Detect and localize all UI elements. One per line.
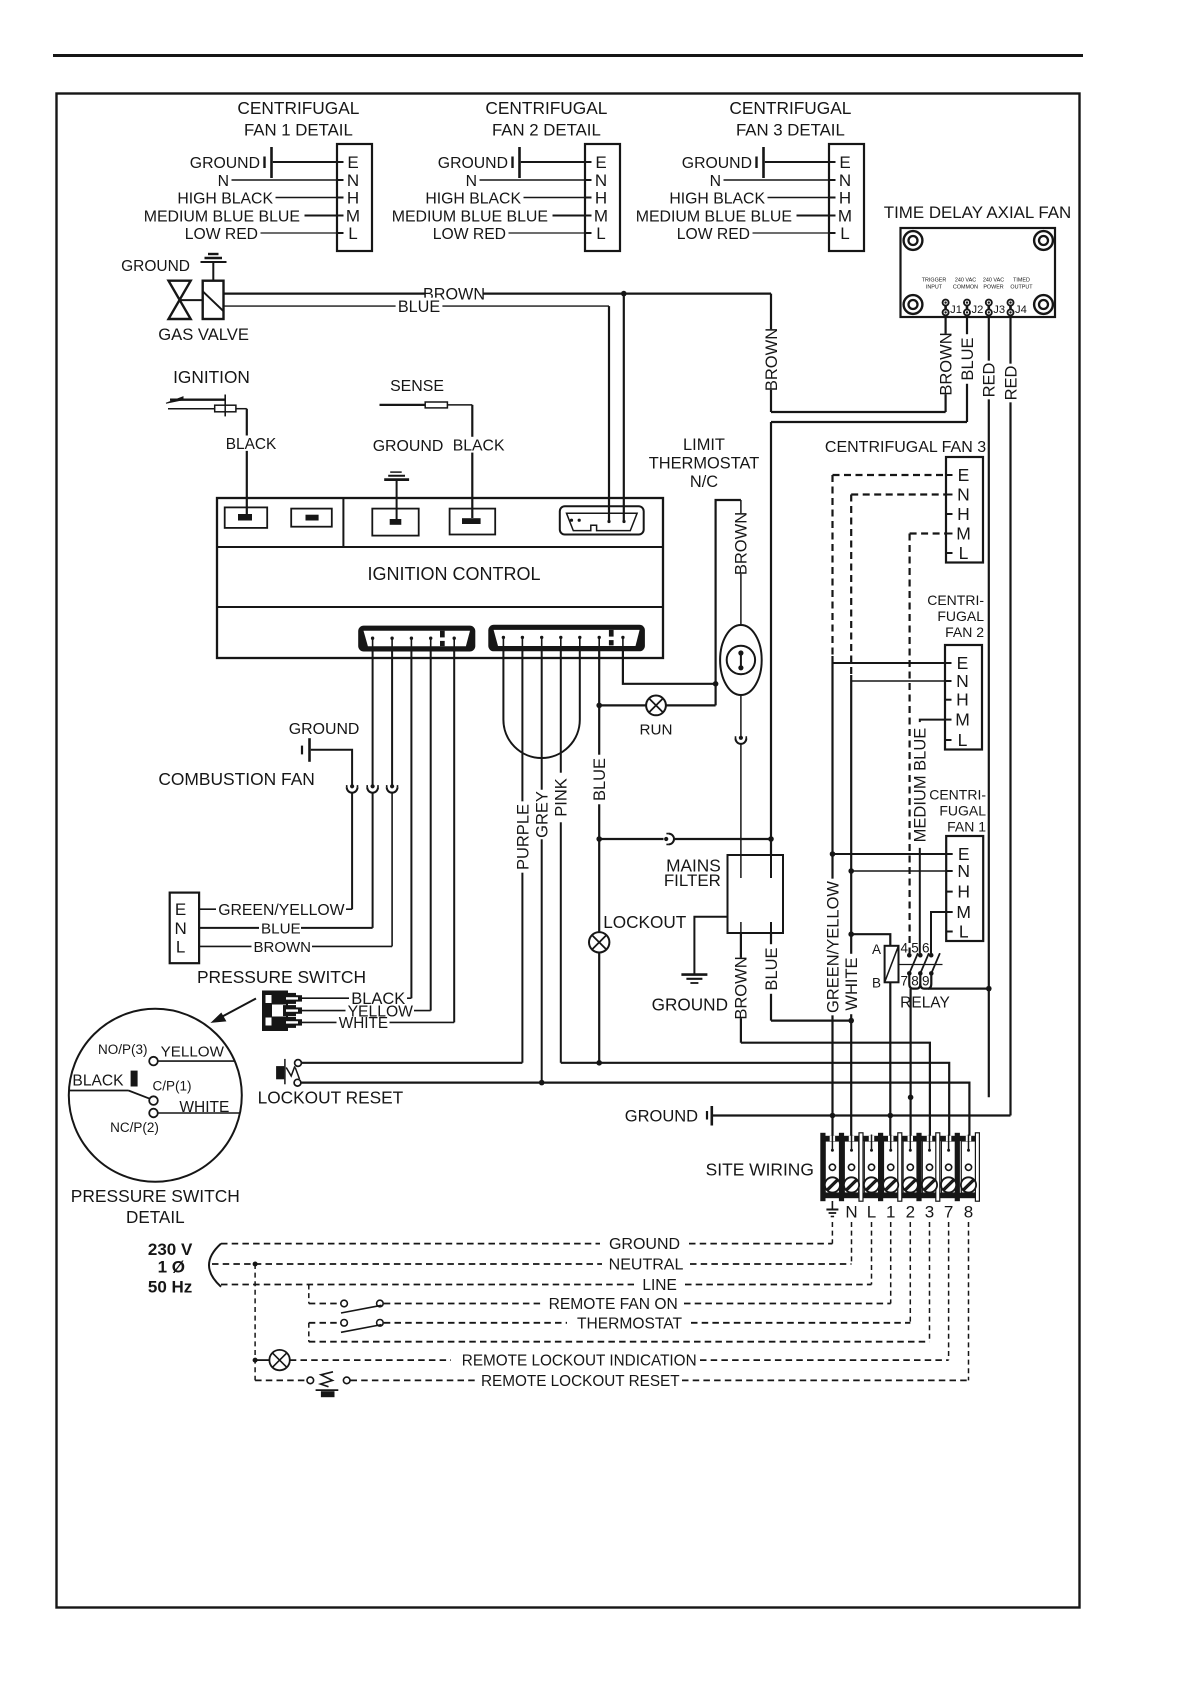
wire blue link row	[599, 838, 663, 840]
wire fan3 M dashed to relay contact 4	[910, 532, 946, 534]
svg-text:J2: J2	[972, 304, 984, 316]
svg-text:240 VAC: 240 VAC	[955, 278, 976, 284]
wire pressure switch BLACK	[301, 997, 349, 999]
svg-text:BLUE: BLUE	[398, 298, 440, 316]
svg-text:OUTPUT: OUTPUT	[1010, 285, 1033, 291]
svg-text:J1: J1	[950, 304, 962, 316]
wire blue filter output	[770, 933, 772, 1021]
wire fan2 N	[851, 680, 945, 682]
svg-text:B: B	[872, 976, 881, 991]
axial fan mounting screw	[1034, 231, 1053, 250]
fan 3 detail wire M	[797, 215, 830, 217]
wire relay common to J3	[928, 987, 989, 989]
svg-text:M: M	[955, 710, 970, 730]
fan 2 detail wire M	[553, 215, 586, 217]
detail wire yellow	[158, 1060, 235, 1062]
axial fan terminals J1 J2 J3 J4	[944, 303, 947, 312]
fan 2 detail wire N	[480, 179, 586, 181]
svg-text:IGNITION: IGNITION	[173, 367, 250, 387]
wire BLUE gas valve to corner	[224, 305, 610, 307]
svg-text:GREY: GREY	[533, 791, 551, 838]
svg-text:CENTRIFUGAL: CENTRIFUGAL	[485, 98, 607, 118]
junction lockout lamp wire	[596, 1060, 602, 1066]
junction brown tap to ignition control	[621, 291, 627, 297]
svg-text:230 V: 230 V	[148, 1240, 193, 1259]
wire BROWN vertical to J1 corner	[770, 294, 772, 412]
lockout reset button	[276, 1066, 284, 1079]
svg-text:RUN: RUN	[640, 722, 673, 739]
svg-text:FAN 1: FAN 1	[947, 819, 986, 835]
dashed row REMOTE FAN ON	[384, 1303, 542, 1305]
svg-text:SITE WIRING: SITE WIRING	[706, 1160, 814, 1180]
svg-text:GAS VALVE: GAS VALVE	[158, 325, 249, 344]
wire junction up to thermostat top corner	[716, 500, 741, 684]
svg-text:9: 9	[922, 973, 930, 988]
run lamp	[646, 696, 666, 716]
svg-text:BLACK: BLACK	[72, 1073, 124, 1090]
svg-text:MEDIUM BLUE BLUE: MEDIUM BLUE BLUE	[392, 209, 548, 226]
wire fan3 E dashed	[833, 474, 947, 476]
svg-text:M: M	[838, 207, 852, 226]
svg-text:8: 8	[911, 973, 919, 988]
svg-text:GROUND: GROUND	[652, 995, 728, 1015]
svg-text:NEUTRAL: NEUTRAL	[609, 1257, 684, 1274]
svg-text:RED: RED	[981, 363, 999, 398]
fan 3 detail wire E	[765, 161, 829, 163]
wire pressure switch YELLOW	[301, 1010, 346, 1012]
svg-text:INPUT: INPUT	[926, 285, 943, 291]
ignition control terminal 2	[291, 509, 332, 527]
svg-text:IGNITION CONTROL: IGNITION CONTROL	[367, 564, 540, 584]
svg-text:1: 1	[886, 1203, 895, 1222]
svg-text:A: A	[872, 942, 881, 957]
fan 2 detail terminal block	[585, 144, 620, 251]
relay coil	[885, 946, 899, 983]
pressure switch connector	[262, 991, 288, 1032]
svg-text:1 Ø: 1 Ø	[158, 1258, 185, 1277]
svg-text:N: N	[957, 861, 970, 881]
svg-text:PRESSURE SWITCH: PRESSURE SWITCH	[71, 1186, 240, 1206]
wire J2 drop blue	[966, 315, 968, 423]
svg-text:BLACK: BLACK	[226, 436, 277, 453]
junction blue/run	[596, 703, 602, 709]
svg-text:FAN 2 DETAIL: FAN 2 DETAIL	[492, 121, 601, 140]
svg-text:NC/P(2): NC/P(2)	[110, 1120, 159, 1135]
wire thermostat top	[740, 500, 742, 626]
pressure switch detail circle	[69, 1009, 242, 1182]
svg-text:COMBUSTION FAN: COMBUSTION FAN	[158, 769, 315, 789]
svg-text:LINE: LINE	[642, 1277, 676, 1294]
svg-text:L: L	[959, 922, 969, 942]
svg-text:LIMIT: LIMIT	[683, 436, 725, 454]
svg-text:H: H	[957, 882, 970, 902]
svg-text:GROUND: GROUND	[609, 1236, 680, 1253]
site wiring terminal strip	[821, 1136, 979, 1198]
svg-text:E: E	[347, 153, 358, 172]
gas valve body	[169, 281, 191, 319]
junction grey	[539, 1080, 545, 1086]
dashed row GROUND	[221, 1243, 600, 1245]
wire brown filter output to terminal 3	[740, 933, 742, 1043]
mains filter internal terminals	[740, 855, 742, 878]
fan 2 detail ground symbol	[511, 157, 513, 169]
svg-text:GROUND: GROUND	[438, 155, 508, 172]
svg-text:GREEN/YELLOW: GREEN/YELLOW	[824, 881, 842, 1013]
dashed common row to terminal 3	[309, 1341, 930, 1343]
relay lower contacts	[907, 971, 912, 976]
dashed row NEUTRAL	[212, 1263, 602, 1265]
sense electrode lead	[380, 404, 426, 406]
svg-text:POWER: POWER	[983, 285, 1003, 291]
ignition control bottom connector left	[358, 626, 475, 652]
ignition control bottom connector right	[488, 625, 645, 652]
wire sense to terminal	[447, 404, 472, 406]
lockout lamp	[589, 932, 609, 952]
wire plug1 down to E	[351, 793, 353, 910]
relay common jumper loops	[909, 973, 920, 988]
svg-text:NO/P(3): NO/P(3)	[98, 1042, 148, 1057]
svg-text:8: 8	[964, 1203, 973, 1222]
centrifugal fan 3 block	[946, 457, 983, 563]
dashed row REMOTE LOCKOUT RESET	[351, 1379, 479, 1381]
fan 3 detail wire L	[753, 232, 830, 234]
page top rule	[53, 54, 1083, 57]
dashed drop line to remote fan on	[308, 1285, 310, 1304]
wire left connector pin1 to plug 2	[372, 647, 374, 785]
svg-text:N/C: N/C	[690, 473, 718, 491]
junction blue to neutral line	[848, 1018, 854, 1024]
svg-text:H: H	[595, 189, 607, 208]
fan 3 detail wire H	[768, 197, 830, 199]
junction fan1 E	[830, 851, 836, 857]
terminal earth label symbol	[831, 1201, 833, 1210]
terminal dashed stubs	[831, 1222, 833, 1244]
svg-text:M: M	[956, 902, 971, 922]
sense electrode insulator	[425, 402, 447, 408]
wire disconnect to mains filter	[740, 744, 742, 855]
wire green/yellow vertical	[831, 656, 833, 1152]
svg-text:MEDIUM BLUE BLUE: MEDIUM BLUE BLUE	[144, 209, 300, 226]
svg-text:E: E	[957, 653, 969, 673]
svg-text:TIME DELAY AXIAL FAN: TIME DELAY AXIAL FAN	[884, 203, 1071, 222]
gas valve ground stem wire	[212, 262, 214, 281]
ignition control ground symbol	[390, 471, 402, 473]
svg-text:REMOTE LOCKOUT INDICATION: REMOTE LOCKOUT INDICATION	[462, 1352, 697, 1369]
wire fan2 E	[833, 662, 946, 664]
svg-text:N: N	[466, 173, 477, 190]
svg-text:PINK: PINK	[553, 778, 571, 817]
svg-text:BLACK: BLACK	[453, 438, 505, 455]
svg-text:H: H	[347, 189, 359, 208]
svg-text:N: N	[839, 171, 851, 190]
relay linkage bar	[899, 964, 943, 966]
svg-text:M: M	[346, 207, 360, 226]
svg-text:E: E	[175, 900, 186, 919]
detail NO terminal	[149, 1057, 158, 1066]
svg-text:L: L	[596, 224, 605, 243]
svg-text:SENSE: SENSE	[390, 378, 444, 395]
svg-text:PURPLE: PURPLE	[514, 804, 532, 870]
thermostat contacts	[740, 654, 742, 668]
gas valve actuator	[203, 281, 224, 319]
svg-text:RED: RED	[1002, 366, 1020, 401]
dashed row THERMOSTAT	[384, 1322, 567, 1324]
svg-text:FAN 1 DETAIL: FAN 1 DETAIL	[244, 121, 353, 140]
mains filter earth wire	[694, 917, 727, 975]
fan 1 detail wire L	[261, 232, 338, 234]
wire white to relay coil A	[851, 934, 890, 946]
limit thermostat bulb	[720, 625, 762, 695]
junction white coil A	[848, 931, 854, 937]
svg-text:BROWN: BROWN	[254, 939, 312, 956]
wire left connector pin2 to plug 3	[391, 647, 393, 785]
supply cable arc	[209, 1244, 221, 1287]
svg-text:LOW RED: LOW RED	[185, 226, 258, 243]
thermostat wire disconnect plug	[739, 736, 743, 740]
site ground symbol	[706, 1111, 708, 1120]
wire blue J2 vertical to mains filter	[770, 422, 772, 855]
wire GREY pin to lockout reset lower row	[541, 647, 543, 1083]
svg-text:LOCKOUT: LOCKOUT	[603, 912, 687, 932]
svg-text:H: H	[956, 690, 969, 710]
svg-text:N: N	[218, 173, 229, 190]
wire brown horizontal to J1	[771, 411, 946, 413]
svg-text:N: N	[710, 173, 721, 190]
gas valve ground symbol	[208, 253, 219, 255]
wire ground row / J4 row	[713, 1114, 1011, 1116]
wire PINK pin to corner	[560, 647, 562, 1063]
svg-text:WHITE: WHITE	[843, 957, 861, 1010]
svg-text:FUGAL: FUGAL	[939, 803, 986, 819]
sense BLACK label	[451, 437, 507, 453]
wire pin7 to thermostat junction	[623, 647, 716, 684]
svg-text:BLUE: BLUE	[959, 337, 977, 380]
wire brown tap down to ignition control connector	[623, 294, 625, 521]
wire BROWN gas valve to junction and corner	[224, 293, 772, 295]
wire fan2 M medium blue to relay contact 5	[920, 720, 945, 727]
svg-text:FAN 2: FAN 2	[945, 624, 984, 640]
ignition control terminal 3	[372, 509, 418, 536]
svg-text:YELLOW: YELLOW	[161, 1044, 225, 1061]
wire fan1 N	[851, 870, 946, 872]
axial fan mounting screw	[904, 231, 923, 250]
combustion fan plug disconnects	[350, 784, 354, 788]
wire relay coil B to terminal 1	[889, 982, 891, 1152]
svg-text:REMOTE LOCKOUT RESET: REMOTE LOCKOUT RESET	[481, 1373, 680, 1390]
svg-text:N: N	[957, 485, 970, 505]
wire combustion fan L brown	[199, 945, 251, 947]
wire blue J2 horizontal	[771, 421, 967, 423]
wire ground to ignition control	[396, 480, 398, 519]
svg-text:H: H	[839, 189, 851, 208]
svg-text:PRESSURE SWITCH: PRESSURE SWITCH	[197, 967, 366, 987]
svg-text:HIGH BLACK: HIGH BLACK	[425, 191, 521, 208]
wire combustion fan E green/yellow	[199, 908, 216, 910]
detail C terminal	[149, 1096, 158, 1105]
remote lockout reset button	[255, 1379, 306, 1381]
svg-text:LOCKOUT RESET: LOCKOUT RESET	[258, 1088, 404, 1108]
ignition control box	[217, 498, 663, 658]
ignition electrode lead	[168, 408, 215, 410]
svg-text:DETAIL: DETAIL	[126, 1208, 185, 1227]
svg-text:GROUND: GROUND	[373, 438, 444, 455]
dashed drop thermostat to common row	[308, 1323, 310, 1342]
blue link disconnect plug	[664, 837, 668, 841]
wire BLUE pin down through lamps	[598, 647, 600, 1063]
svg-text:BROWN: BROWN	[763, 328, 781, 391]
svg-text:H: H	[957, 504, 970, 524]
wire relay common down to line row	[909, 989, 911, 1152]
svg-text:N: N	[174, 919, 186, 938]
wire blue down to ignition control connector	[608, 306, 610, 521]
svg-text:BLUE: BLUE	[261, 921, 301, 938]
wire pressure switch WHITE	[301, 1021, 337, 1023]
relay contact blades	[909, 953, 918, 973]
wire jumper loop pins 1-5	[503, 647, 579, 758]
junction pin7/thermostat	[713, 681, 719, 687]
svg-text:N: N	[347, 171, 359, 190]
wire fan3 N dashed	[851, 493, 946, 495]
fan 2 detail wire L	[509, 232, 586, 234]
svg-text:BLUE: BLUE	[591, 758, 609, 801]
svg-text:BROWN: BROWN	[733, 956, 751, 1019]
svg-text:COMMON: COMMON	[953, 285, 978, 291]
ignition control terminal 4	[450, 509, 496, 535]
mains filter earth symbol	[681, 973, 707, 976]
wire plug2 down to N	[372, 793, 374, 928]
svg-text:J4: J4	[1015, 304, 1027, 316]
svg-text:GROUND: GROUND	[625, 1108, 698, 1126]
svg-text:REMOTE FAN ON: REMOTE FAN ON	[549, 1296, 678, 1313]
detail plunger	[131, 1071, 138, 1087]
svg-text:CENTRI-: CENTRI-	[927, 592, 984, 608]
ignition control terminal 1	[225, 507, 268, 528]
svg-text:LOW RED: LOW RED	[677, 226, 750, 243]
ignition BLACK label	[224, 435, 279, 450]
svg-text:L: L	[176, 937, 185, 956]
fan 2 detail wire E	[521, 161, 585, 163]
fan 1 detail wire N	[232, 179, 338, 181]
svg-text:CENTRIFUGAL: CENTRIFUGAL	[237, 98, 359, 118]
centrifugal fan 2 block	[945, 645, 982, 750]
wire thermostat bottom to disconnect	[740, 695, 742, 736]
svg-text:L: L	[958, 730, 968, 750]
svg-text:E: E	[958, 465, 970, 485]
fan 1 detail wire M	[305, 215, 338, 217]
remote fan on switch	[309, 1303, 341, 1305]
svg-text:LOW RED: LOW RED	[433, 226, 506, 243]
wire neutral/white vertical	[850, 675, 852, 1152]
fan 3 detail ground symbol	[755, 157, 757, 169]
thermostat switch	[309, 1322, 341, 1324]
wire ignition lead to terminal	[236, 408, 247, 410]
junction ground / green-yellow	[830, 1113, 836, 1119]
detail wire black	[69, 1090, 129, 1092]
wire pink to terminal 7 row	[561, 1063, 949, 1152]
svg-text:GROUND: GROUND	[289, 721, 360, 738]
fan 3 detail terminal block	[829, 144, 864, 251]
svg-text:E: E	[839, 153, 850, 172]
svg-text:M: M	[594, 207, 608, 226]
svg-text:7: 7	[901, 973, 909, 988]
svg-text:L: L	[348, 224, 357, 243]
detail wire white	[158, 1112, 240, 1114]
wire PURPLE pin to lockout reset row	[521, 647, 523, 1063]
svg-text:N: N	[956, 671, 969, 691]
svg-text:BROWN: BROWN	[733, 512, 751, 575]
dashed row LINE	[221, 1284, 634, 1286]
svg-text:BLUE: BLUE	[763, 947, 781, 990]
axial fan mounting screw	[1034, 295, 1053, 314]
wire combustion fan N blue	[199, 927, 259, 929]
ignition spark gap	[224, 395, 226, 417]
svg-text:50 Hz: 50 Hz	[148, 1278, 192, 1297]
junction blue link left	[596, 836, 602, 842]
svg-text:WHITE: WHITE	[339, 1015, 388, 1032]
wire lockout reset top to purple	[301, 1062, 522, 1064]
svg-text:THERMOSTAT: THERMOSTAT	[577, 1315, 683, 1332]
junction blue link right	[768, 836, 774, 842]
svg-text:E: E	[595, 153, 606, 172]
svg-text:TIMED: TIMED	[1013, 278, 1030, 284]
wire gas valve to actuator	[180, 299, 203, 301]
svg-text:THERMOSTAT: THERMOSTAT	[649, 455, 759, 473]
svg-text:GROUND: GROUND	[121, 258, 190, 275]
svg-text:BROWN: BROWN	[937, 332, 955, 395]
svg-text:CENTRI-: CENTRI-	[929, 787, 986, 803]
dashed drop neutral to lamp and reset	[254, 1264, 256, 1380]
wire J4 red drop	[1009, 315, 1011, 1116]
svg-text:L: L	[959, 543, 969, 563]
wire fan1 M to relay contact 6	[931, 912, 946, 953]
svg-text:HIGH BLACK: HIGH BLACK	[177, 191, 273, 208]
fan 1 detail terminal block	[337, 144, 372, 251]
svg-text:HIGH BLACK: HIGH BLACK	[669, 191, 765, 208]
svg-text:C/P(1): C/P(1)	[153, 1079, 192, 1094]
junction relay common / J3	[986, 986, 992, 992]
svg-text:FAN 3 DETAIL: FAN 3 DETAIL	[736, 121, 845, 140]
svg-text:L: L	[867, 1203, 876, 1222]
svg-text:N: N	[845, 1203, 857, 1222]
svg-text:CENTRIFUGAL: CENTRIFUGAL	[729, 98, 851, 118]
svg-text:240 VAC: 240 VAC	[983, 278, 1004, 284]
combustion fan ground symbol	[301, 746, 303, 755]
junction relay drop / line row / terminal 2	[908, 1095, 914, 1101]
svg-text:FILTER: FILTER	[664, 871, 721, 890]
svg-text:J3: J3	[993, 304, 1005, 316]
ignition electrode insulator	[215, 405, 236, 412]
axial fan mounting screw	[904, 295, 923, 314]
mains filter box	[728, 855, 784, 933]
svg-text:M: M	[956, 524, 971, 544]
wire ground to plug 1	[311, 750, 352, 785]
svg-text:7: 7	[944, 1203, 953, 1222]
wire run lamp row	[599, 704, 715, 706]
svg-text:2: 2	[906, 1203, 915, 1222]
fan 1 detail wire H	[276, 197, 338, 199]
svg-text:RELAY: RELAY	[900, 995, 950, 1012]
junction neutral drop	[253, 1262, 258, 1267]
svg-text:N: N	[595, 171, 607, 190]
diagram border frame	[57, 94, 1080, 1608]
svg-text:GREEN/YELLOW: GREEN/YELLOW	[218, 902, 344, 919]
svg-text:5: 5	[911, 940, 919, 955]
pressure switch arrow to detail	[219, 999, 256, 1019]
fan 2 detail wire H	[524, 197, 586, 199]
wire plug3 down to L	[391, 793, 393, 947]
detail NC terminal	[149, 1109, 158, 1118]
svg-text:3: 3	[925, 1203, 934, 1222]
